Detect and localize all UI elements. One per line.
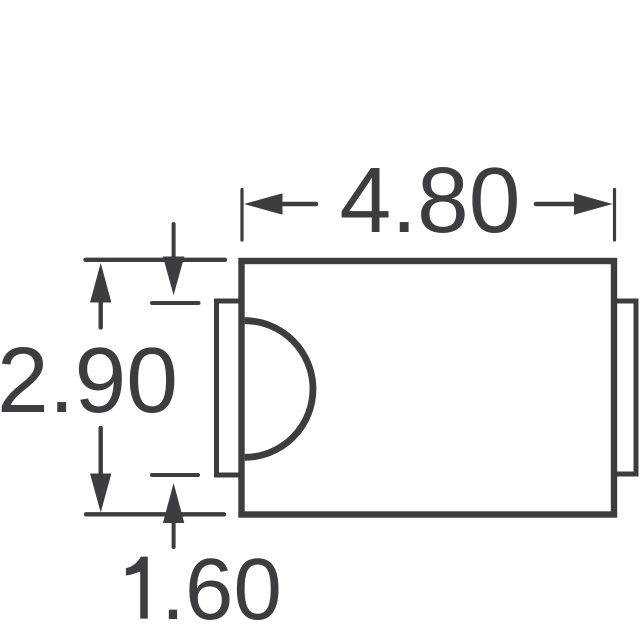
svg-text:4.80: 4.80 xyxy=(339,148,520,252)
dimension 1.60 lower dimension line xyxy=(172,522,176,547)
package body outline xyxy=(242,261,615,515)
custom digit 1 of label 1.60 xyxy=(126,557,148,619)
right terminal tab xyxy=(614,301,636,474)
dimension 2.90 bottom tick line xyxy=(86,512,224,516)
dimension 4.80 right arrowhead xyxy=(574,193,613,215)
dimension 4.80 left extension line xyxy=(240,190,243,241)
dimension 2.90 up arrowhead xyxy=(90,263,111,303)
svg-text:2.90: 2.90 xyxy=(0,328,178,432)
dimension 4.80 right extension line xyxy=(613,190,616,241)
dimension 1.60 bottom tick line xyxy=(152,473,198,477)
left terminal tab xyxy=(217,301,242,475)
svg-text:.60: .60 xyxy=(161,541,282,638)
dimension 2.90 upper dimension line xyxy=(98,301,102,328)
cathode half-circle marker xyxy=(245,321,313,458)
dimension 1.60 up arrowhead xyxy=(163,483,184,523)
dimension 2.90 top tick line xyxy=(86,258,226,262)
dimension 1.60 down arrowhead xyxy=(163,257,184,296)
dimension 4.80 left arrowhead xyxy=(244,193,283,215)
dimension 2.90 down arrowhead xyxy=(90,474,111,513)
dimension 4.80 left dimension line xyxy=(281,202,316,207)
dimension 4.80 right dimension line xyxy=(536,202,575,207)
dimension 1.60 top tick line xyxy=(152,301,199,305)
dimension 1.60 upper dimension line xyxy=(172,224,176,258)
dimension 2.90 lower dimension line xyxy=(98,428,102,476)
